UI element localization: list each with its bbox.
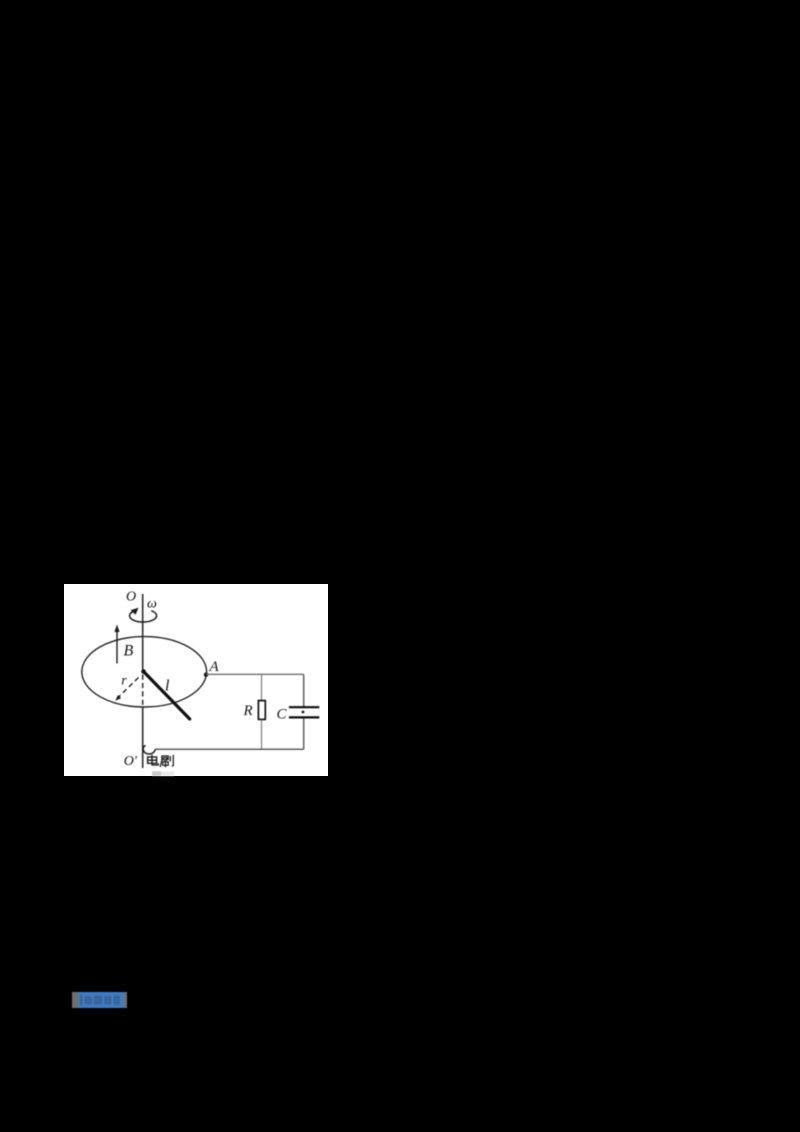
rotation arrow arc	[130, 611, 157, 622]
svg-text:A: A	[209, 659, 220, 675]
resistor R	[258, 701, 265, 720]
axis OO' vertical line (solid top)	[142, 594, 144, 672]
svg-text:r: r	[121, 674, 127, 689]
blue button fragment	[71, 991, 129, 1009]
capacitor C top plate	[289, 706, 319, 708]
rod l	[144, 672, 190, 720]
svg-text:O: O	[126, 590, 136, 605]
center pivot dot	[141, 669, 146, 674]
watermark smudge	[152, 771, 161, 776]
wire: right branch upper	[303, 674, 305, 706]
wire: bottom return	[155, 748, 304, 750]
capacitor C bottom plate	[289, 716, 319, 718]
wire: right branch lower	[303, 719, 305, 750]
svg-text:B: B	[124, 643, 134, 660]
label dianshua (brush) 刷	[160, 755, 173, 768]
svg-text:ω: ω	[147, 597, 157, 612]
wire: R branch upper	[261, 674, 263, 700]
figure: rotating disc generator with R-C circuit	[64, 584, 328, 776]
label dianshua (brush) 电	[148, 755, 159, 765]
svg-text:l: l	[165, 678, 170, 695]
rotation arrowhead	[131, 608, 139, 615]
wire: top from A to right corner	[206, 673, 304, 675]
brush hook arc	[143, 746, 155, 755]
wire: R branch lower	[261, 719, 263, 749]
axis hidden segment (dashed)	[142, 675, 144, 708]
node A dot	[204, 673, 208, 677]
svg-text:R: R	[243, 703, 253, 719]
B field arrow	[116, 631, 118, 664]
radius r dashed arrow	[118, 678, 139, 699]
svg-text:C: C	[277, 707, 288, 723]
svg-text:O′: O′	[124, 754, 138, 769]
axis OO' vertical line (solid bottom)	[142, 707, 144, 768]
disc ellipse	[82, 637, 207, 707]
capacitor gap dot	[302, 711, 305, 714]
